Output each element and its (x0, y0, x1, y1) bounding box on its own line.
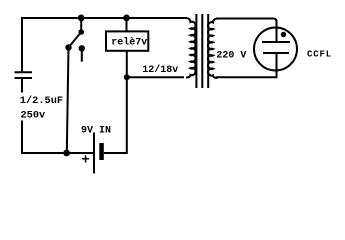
switch left contact dot (65, 44, 71, 50)
CCFL getter dot (281, 32, 286, 37)
svg-text:+: + (81, 153, 89, 169)
CCFL lower electrode (263, 52, 289, 54)
wire battery right to 12/18v node vertical (104, 77, 127, 153)
transformer T1 primary winding (186, 18, 196, 77)
battery B1 positive long plate (93, 133, 95, 174)
switch pole dot (78, 29, 84, 35)
wire secondary top to lamp (216, 19, 277, 43)
wire secondary bottom to lamp (216, 53, 277, 77)
wire switch left contact down (67, 48, 69, 154)
svg-text:12/18v: 12/18v (142, 64, 178, 76)
CCFL upper electrode (262, 41, 290, 43)
junction dot top wire at relay (123, 15, 130, 22)
wire 12/18v horizontal to transformer primary (127, 76, 184, 78)
label 220 V background (216, 48, 248, 59)
wire left vertical lower (capacitor to bottom) (21, 78, 23, 153)
svg-text:220 V: 220 V (216, 51, 246, 62)
wire bottom horizontal (21, 152, 94, 154)
svg-text:250v: 250v (21, 109, 46, 121)
wire relay drop from top (126, 18, 128, 31)
junction dot bottom wire at switch branch (63, 150, 70, 157)
svg-text:1/2.5uF: 1/2.5uF (20, 95, 63, 107)
capacitor C1 plates (15, 72, 33, 78)
svg-text:CCFL: CCFL (307, 50, 332, 60)
junction dot top wire at switch (78, 15, 85, 22)
svg-text:relè7v: relè7v (111, 37, 147, 49)
wire top horizontal (22, 17, 187, 19)
wire left vertical upper (to capacitor) (21, 17, 23, 72)
wire relay box to 12/18v node (126, 51, 128, 78)
transformer T1 secondary winding (208, 19, 218, 78)
switch right contact dot (79, 45, 85, 51)
battery B1 negative thick plate (99, 143, 104, 160)
svg-text:9V IN: 9V IN (81, 125, 111, 136)
label capacitor value background (19, 93, 66, 121)
relay coil box K1 (106, 31, 148, 50)
wire switch right contact stub (81, 48, 83, 61)
switch SW1 lever (69, 32, 82, 48)
CCFL lamp envelope circle (254, 28, 297, 71)
junction dot 12/18v node (124, 74, 130, 80)
transformer T1 core lamination lines (196, 14, 208, 88)
wire switch drop from top (80, 18, 82, 32)
